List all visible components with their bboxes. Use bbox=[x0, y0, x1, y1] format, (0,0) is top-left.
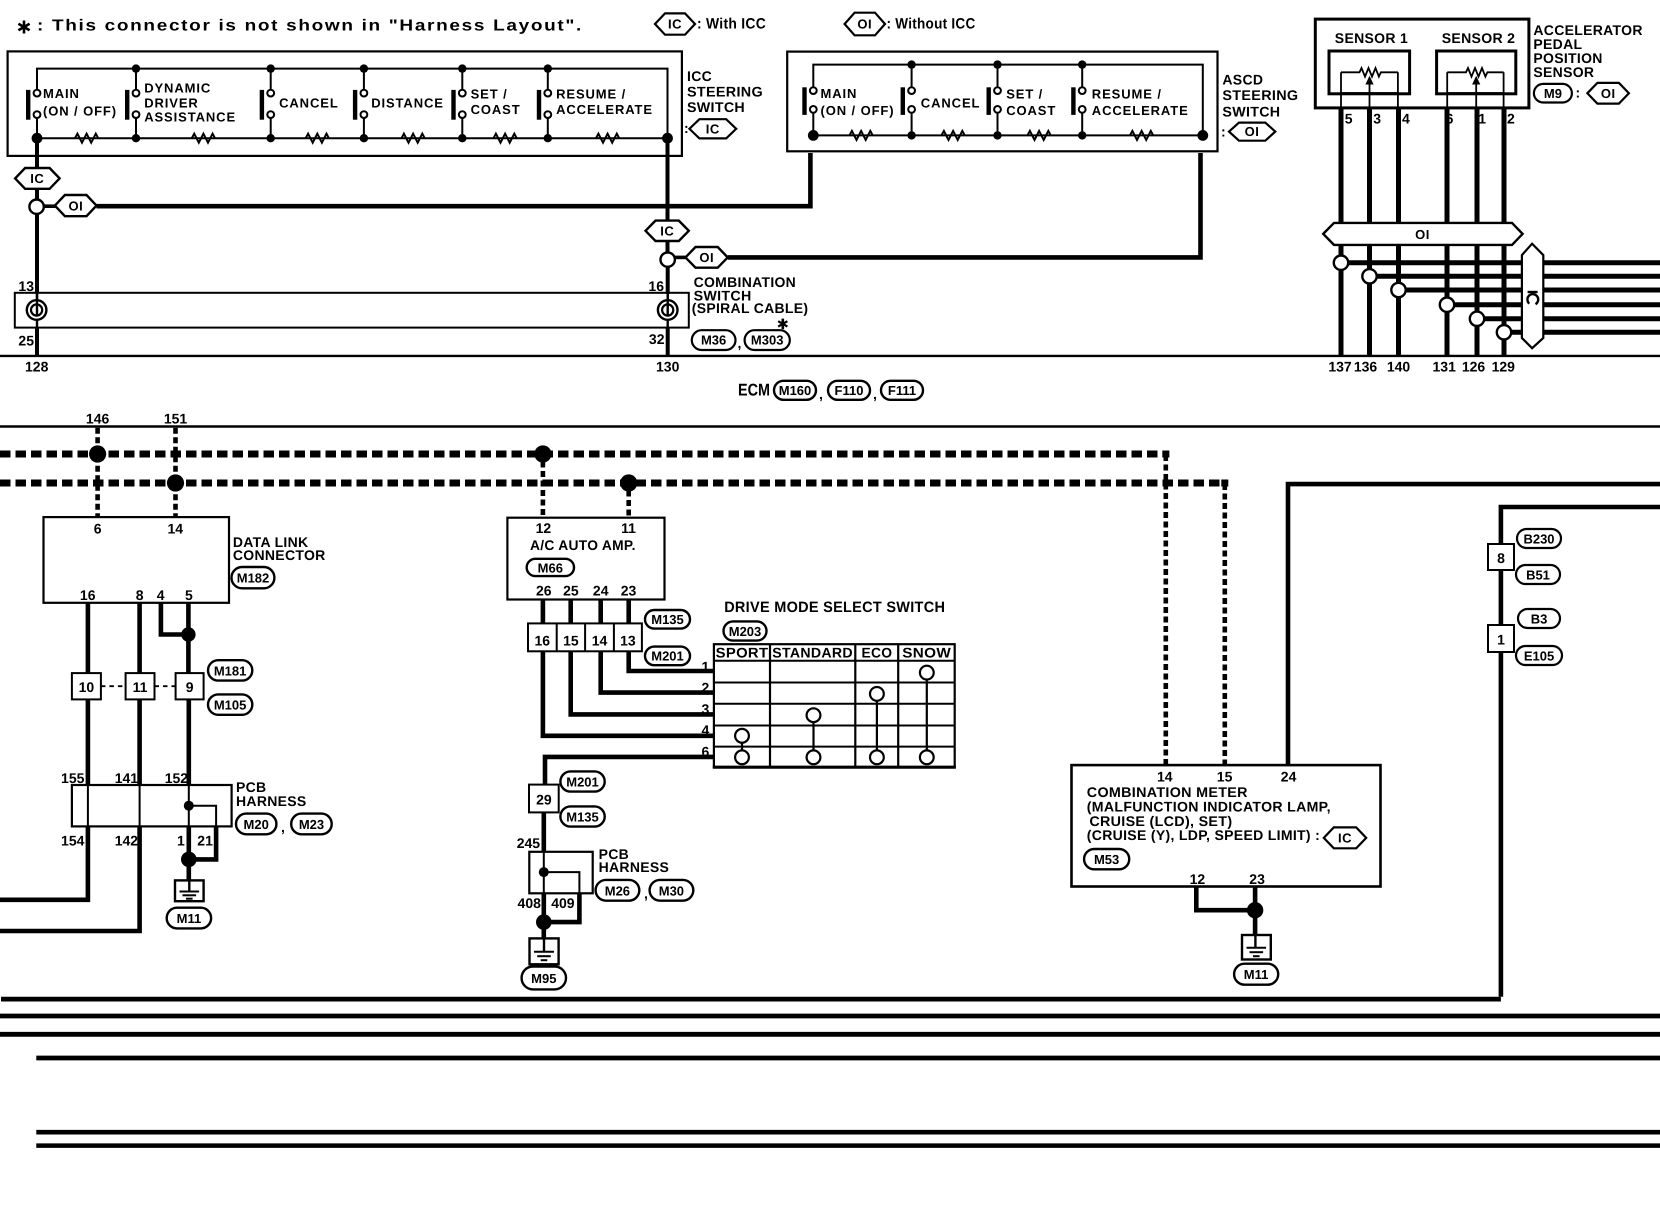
svg-text:12: 12 bbox=[1190, 871, 1206, 887]
svg-text:M135: M135 bbox=[566, 810, 599, 825]
wire node to OI tag right bbox=[675, 256, 688, 260]
svg-text:21: 21 bbox=[197, 833, 213, 849]
wire table row6 to box 29 bbox=[545, 757, 714, 785]
svg-text:ECO: ECO bbox=[861, 644, 892, 660]
svg-text:IC: IC bbox=[660, 224, 674, 239]
connector M135 oval bbox=[645, 610, 690, 629]
svg-text:M203: M203 bbox=[729, 624, 762, 639]
ICC resistor R2 bbox=[192, 134, 215, 143]
wire DLC 5 down bbox=[186, 603, 191, 673]
svg-text:M20: M20 bbox=[244, 817, 269, 832]
sensor wire 2 bbox=[1502, 108, 1507, 356]
svg-text:ASSISTANCE: ASSISTANCE bbox=[144, 110, 236, 125]
inline connector box 9 bbox=[176, 673, 204, 699]
dashed vertical meter pin 14 bbox=[1164, 455, 1169, 765]
node circle right bbox=[661, 252, 675, 266]
wire OI horizontal to ASCD right end bbox=[728, 153, 1201, 257]
svg-text:6: 6 bbox=[702, 743, 710, 759]
sensor 2 inner box bbox=[1437, 51, 1516, 94]
ASCD resistor R3 bbox=[1028, 131, 1051, 140]
svg-text:151: 151 bbox=[164, 411, 188, 427]
svg-text:F111: F111 bbox=[888, 383, 916, 398]
svg-text:2: 2 bbox=[702, 679, 710, 695]
IC banner vertical bbox=[1522, 244, 1543, 349]
drive mode table frame bbox=[714, 644, 955, 767]
wire ICC right bus down to IC tag bbox=[666, 143, 670, 221]
svg-text:25: 25 bbox=[18, 333, 34, 349]
ICC switch SET/COAST bbox=[451, 64, 520, 142]
CAN bus dashed line 2 bbox=[0, 480, 1228, 487]
svg-text:16: 16 bbox=[535, 632, 551, 648]
svg-text:OI: OI bbox=[1601, 86, 1616, 101]
svg-text:CONNECTOR: CONNECTOR bbox=[233, 547, 326, 563]
table column line STANDARD/ECO bbox=[854, 644, 856, 767]
note asterisk bbox=[18, 21, 29, 34]
svg-text:: Without ICC: : Without ICC bbox=[887, 16, 976, 33]
svg-text:137: 137 bbox=[1328, 358, 1352, 374]
ASCD switch CANCEL bbox=[901, 60, 981, 139]
SPORT switch contacts bbox=[741, 736, 743, 758]
junction dot bus1 x146 bbox=[89, 445, 106, 462]
ground symbol M11 left bbox=[175, 880, 204, 901]
wire A/C 23 down bbox=[626, 600, 631, 624]
wire pin 32 to ECM bbox=[666, 328, 670, 356]
connector M30 oval bbox=[650, 880, 694, 901]
svg-text:154: 154 bbox=[61, 833, 85, 849]
connector M182 oval bbox=[232, 567, 275, 588]
wire node down to pin 13 bbox=[35, 214, 39, 293]
svg-text:M9: M9 bbox=[1544, 86, 1562, 101]
svg-text:M26: M26 bbox=[605, 883, 630, 898]
svg-text::: : bbox=[684, 120, 689, 136]
ICC resistor R3 bbox=[306, 134, 329, 143]
wire 13 to table row1 bbox=[629, 651, 714, 671]
corner elbow bus2 bbox=[1221, 480, 1228, 487]
svg-text:,: , bbox=[738, 335, 742, 351]
connector M303 oval bbox=[745, 330, 790, 350]
svg-text:24: 24 bbox=[593, 583, 609, 599]
wire meter pin 24 up and right offpage bbox=[1288, 484, 1660, 765]
connector M203 oval bbox=[724, 621, 767, 640]
ICC top bus wire bbox=[37, 69, 668, 139]
svg-text:SENSOR: SENSOR bbox=[1533, 64, 1594, 80]
svg-text:(CRUISE (Y), LDP, SPEED LIMIT): (CRUISE (Y), LDP, SPEED LIMIT) : bbox=[1087, 827, 1320, 843]
svg-text:HARNESS: HARNESS bbox=[236, 793, 307, 809]
svg-text:M160: M160 bbox=[779, 383, 812, 398]
svg-text:OI: OI bbox=[1415, 227, 1430, 242]
sensor 1 inner box bbox=[1329, 51, 1410, 94]
svg-text:26: 26 bbox=[536, 583, 552, 599]
connector F111 oval bbox=[881, 381, 923, 400]
svg-text:SET /: SET / bbox=[471, 87, 508, 102]
svg-text:,: , bbox=[873, 386, 877, 402]
svg-text:B51: B51 bbox=[1526, 567, 1550, 582]
svg-text::: : bbox=[1221, 124, 1226, 140]
IC hexagon tag right wire bbox=[646, 221, 689, 241]
svg-text:15: 15 bbox=[1217, 769, 1233, 785]
inline connector box 10 bbox=[72, 673, 101, 699]
branch line wire5 right bbox=[1348, 260, 1660, 265]
svg-text:14: 14 bbox=[592, 632, 608, 648]
svg-text:10: 10 bbox=[79, 679, 95, 695]
svg-text:OI: OI bbox=[699, 250, 714, 265]
svg-text:,: , bbox=[644, 886, 648, 902]
svg-text:F110: F110 bbox=[835, 383, 864, 398]
svg-text:M95: M95 bbox=[531, 971, 556, 986]
connector M95 oval bbox=[522, 967, 566, 990]
svg-text:STANDARD: STANDARD bbox=[772, 644, 853, 660]
branch line wire1 right bbox=[1484, 316, 1660, 321]
svg-text:COAST: COAST bbox=[471, 102, 521, 117]
junction dot bus2 x151 bbox=[167, 474, 184, 491]
wire meter 12 down right bbox=[1196, 887, 1255, 911]
wire box9 down to PCB bbox=[187, 699, 192, 785]
ICC switch CANCEL bbox=[260, 64, 339, 142]
branch line wire6 right bbox=[1454, 302, 1660, 307]
ground symbol M95 bbox=[530, 938, 559, 964]
svg-text:(ON / OFF): (ON / OFF) bbox=[43, 103, 117, 118]
svg-text:11: 11 bbox=[133, 679, 148, 695]
bottom line 5 bbox=[36, 1130, 1660, 1135]
svg-text:5: 5 bbox=[1345, 111, 1353, 127]
svg-text:29: 29 bbox=[536, 792, 552, 808]
svg-text:M53: M53 bbox=[1094, 852, 1119, 867]
svg-text:23: 23 bbox=[1249, 871, 1265, 887]
svg-text:M201: M201 bbox=[566, 775, 599, 790]
svg-text:4: 4 bbox=[157, 587, 165, 603]
svg-text:M30: M30 bbox=[659, 883, 684, 898]
legend OI hexagon bbox=[845, 13, 885, 36]
svg-text:15: 15 bbox=[563, 632, 579, 648]
branch line wire4 right bbox=[1406, 288, 1660, 293]
svg-text:,: , bbox=[281, 819, 285, 835]
svg-text:155: 155 bbox=[61, 770, 85, 786]
junction dot pin1/21 bbox=[181, 852, 197, 868]
junction dot bus1 A/C12 bbox=[534, 445, 551, 462]
svg-text:8: 8 bbox=[1497, 550, 1505, 566]
svg-text:DRIVER: DRIVER bbox=[144, 96, 199, 111]
svg-text:B230: B230 bbox=[1523, 531, 1554, 546]
svg-text:ACCELERATE: ACCELERATE bbox=[556, 102, 653, 117]
table header row line bbox=[714, 660, 955, 662]
svg-text:: With ICC: : With ICC bbox=[697, 16, 766, 33]
corner elbow bus1 bbox=[1162, 451, 1169, 458]
svg-text:DYNAMIC: DYNAMIC bbox=[144, 81, 211, 96]
OI hexagon tag on horizontal wire bbox=[55, 195, 97, 216]
svg-text:SENSOR 1: SENSOR 1 bbox=[1335, 30, 1408, 46]
svg-text:A/C AUTO AMP.: A/C AUTO AMP. bbox=[530, 537, 636, 553]
connector M26 oval bbox=[596, 880, 640, 901]
IC hexagon tag left wire bbox=[15, 168, 60, 189]
wire 15 to table row3 bbox=[571, 651, 714, 714]
svg-text:M135: M135 bbox=[651, 612, 684, 627]
svg-text:SENSOR 2: SENSOR 2 bbox=[1442, 30, 1516, 46]
svg-text:M66: M66 bbox=[538, 561, 563, 576]
svg-text:130: 130 bbox=[656, 359, 680, 375]
svg-text:ICC: ICC bbox=[687, 68, 712, 84]
svg-text:3: 3 bbox=[702, 701, 710, 717]
ICC resistor R6 bbox=[596, 134, 619, 143]
svg-text:9: 9 bbox=[186, 679, 194, 695]
connector F110 oval bbox=[828, 381, 870, 400]
junction dot 408/409 bbox=[536, 914, 552, 930]
node circle wire2 bbox=[1497, 325, 1511, 339]
svg-text:M11: M11 bbox=[177, 911, 202, 926]
node circle wire6 bbox=[1440, 298, 1454, 312]
svg-text:ASCD: ASCD bbox=[1222, 71, 1263, 87]
OI hexagon tag at ASCD box bbox=[1229, 123, 1275, 141]
STANDARD switch contacts bbox=[812, 715, 814, 757]
table bottom thick line bbox=[713, 766, 956, 769]
svg-text:IC: IC bbox=[30, 171, 44, 186]
wire box10 down to PCB bbox=[86, 699, 91, 785]
IC hexagon tag at ICC box bbox=[689, 119, 736, 138]
svg-text:M181: M181 bbox=[214, 663, 247, 678]
svg-text:OI: OI bbox=[1245, 124, 1260, 139]
ICC resistor R4 bbox=[402, 134, 425, 143]
inline connector box 1 bbox=[1488, 625, 1514, 652]
spiral cable terminal left (double circle) bbox=[27, 300, 47, 320]
svg-text:,: , bbox=[819, 386, 823, 402]
junction dot inside PCB bbox=[184, 801, 194, 811]
junction dot meter ground bbox=[1247, 902, 1263, 918]
connector M201 oval lower bbox=[560, 771, 604, 791]
svg-text:32: 32 bbox=[649, 331, 665, 347]
wire DLC 4 down and right bbox=[161, 603, 189, 635]
accelerator pedal position sensor box bbox=[1315, 19, 1529, 108]
branch line wire3 right bbox=[1377, 274, 1660, 279]
junction dot pins 4/5 bbox=[181, 627, 195, 641]
svg-text:M23: M23 bbox=[299, 817, 324, 832]
svg-text:152: 152 bbox=[165, 770, 189, 786]
inline connector box 11 bbox=[126, 673, 155, 699]
svg-text:MAIN: MAIN bbox=[821, 86, 858, 101]
connector B3 oval bbox=[1518, 609, 1560, 628]
svg-text:DISTANCE: DISTANCE bbox=[371, 95, 444, 110]
svg-text:6: 6 bbox=[94, 521, 102, 537]
svg-text:SWITCH: SWITCH bbox=[687, 99, 745, 115]
svg-text:131: 131 bbox=[1433, 358, 1457, 374]
connector M105 oval bbox=[208, 694, 252, 714]
svg-text:SET /: SET / bbox=[1006, 87, 1043, 102]
ASCD top bus wire bbox=[813, 65, 1203, 136]
wire 245-408 through PCB2 bbox=[543, 852, 545, 894]
svg-text:2: 2 bbox=[1507, 111, 1515, 127]
svg-text:12: 12 bbox=[536, 520, 552, 536]
bottom line 2 bbox=[0, 1014, 1660, 1019]
svg-text:4: 4 bbox=[1402, 111, 1410, 127]
wire A/C 25 down bbox=[568, 600, 573, 624]
ICC resistor R1 bbox=[75, 134, 98, 143]
OI banner across sensor wires bbox=[1323, 223, 1522, 245]
ASCD switch RESUME/ACCELERATE bbox=[1071, 60, 1188, 139]
sensor wire 5 bbox=[1339, 108, 1344, 356]
inline connector box 29 bbox=[529, 785, 559, 813]
wire from right edge down through 8 and 1 bbox=[1501, 507, 1660, 997]
CAN bus dashed line 1 bbox=[0, 451, 1169, 458]
connector B230 oval bbox=[1517, 529, 1561, 548]
wire ICC MAIN down to IC tag bbox=[35, 143, 39, 168]
wire IC tag to node circle bbox=[35, 189, 39, 200]
PCB harness box 2 bbox=[529, 852, 592, 894]
svg-text:129: 129 bbox=[1492, 358, 1516, 374]
svg-text:M36: M36 bbox=[701, 333, 726, 348]
dashed link 11-9 bbox=[155, 685, 176, 687]
ICC switch DISTANCE bbox=[353, 64, 444, 142]
sensor 2 potentiometer bbox=[1447, 68, 1503, 108]
ICC resistor R5 bbox=[494, 134, 517, 143]
ASCD resistor R4 bbox=[1130, 131, 1153, 140]
svg-text:14: 14 bbox=[168, 521, 184, 537]
junction dot inside PCB2 bbox=[539, 867, 549, 877]
ASCD switch MAIN (ON/OFF) bbox=[802, 86, 894, 136]
A/C auto amp box bbox=[507, 518, 664, 600]
table column line SPORT/STANDARD bbox=[769, 644, 771, 767]
svg-text:M201: M201 bbox=[651, 649, 684, 664]
junction dot ICC right bus bbox=[662, 133, 673, 144]
connector M181 oval bbox=[208, 660, 252, 680]
wire DLC 8 down bbox=[137, 603, 142, 673]
ground symbol M11 right bbox=[1242, 935, 1271, 960]
svg-text:B3: B3 bbox=[1531, 611, 1548, 626]
wire meter 23 down bbox=[1253, 887, 1258, 936]
svg-text:RESUME /: RESUME / bbox=[556, 87, 626, 102]
table row line 3 bbox=[714, 725, 955, 727]
dashed vertical A/C amp pin 12 bbox=[541, 452, 546, 518]
svg-text:141: 141 bbox=[115, 770, 139, 786]
svg-text:4: 4 bbox=[702, 722, 710, 738]
svg-text:5: 5 bbox=[185, 587, 193, 603]
connector M11 oval left bbox=[167, 908, 211, 929]
dashed vertical meter pin 15 bbox=[1223, 484, 1228, 765]
junction dot ICC left bus bbox=[32, 133, 43, 144]
svg-text:14: 14 bbox=[1157, 769, 1173, 785]
wire 155-154 through PCB bbox=[87, 785, 89, 826]
svg-text:(SPIRAL CABLE): (SPIRAL CABLE) bbox=[692, 300, 809, 316]
svg-text:RESUME /: RESUME / bbox=[1092, 87, 1162, 102]
svg-text:3: 3 bbox=[1373, 111, 1381, 127]
svg-text:M11: M11 bbox=[1244, 967, 1269, 982]
wire box11 down to PCB bbox=[137, 699, 142, 785]
svg-text:STEERING: STEERING bbox=[687, 84, 763, 100]
connector M11 oval right bbox=[1234, 964, 1278, 985]
connector M23 oval bbox=[291, 814, 332, 835]
wire A/C 24 down bbox=[598, 600, 603, 624]
wire pin408 down bbox=[541, 893, 546, 938]
svg-text:CANCEL: CANCEL bbox=[921, 95, 981, 110]
ICC switch DYNAMIC DRIVER ASSISTANCE bbox=[125, 64, 236, 142]
node circle wire5 bbox=[1334, 256, 1348, 270]
legend IC hexagon bbox=[655, 13, 695, 34]
svg-text:136: 136 bbox=[1354, 358, 1378, 374]
svg-text:(ON / OFF): (ON / OFF) bbox=[821, 103, 895, 118]
svg-text:126: 126 bbox=[1462, 358, 1486, 374]
asterisk above M303 bbox=[778, 319, 787, 330]
OI hexagon tag second bbox=[686, 247, 728, 268]
connector M66 oval bbox=[527, 559, 574, 576]
svg-text:408: 408 bbox=[518, 895, 542, 911]
wire 14 to table row2 bbox=[601, 651, 714, 692]
svg-text::: : bbox=[1576, 85, 1581, 101]
svg-text:1: 1 bbox=[1497, 632, 1505, 648]
dashed link 10-11 bbox=[101, 685, 126, 687]
svg-text:245: 245 bbox=[517, 835, 541, 851]
branch to pin 21 bbox=[189, 806, 216, 827]
connector M36 oval bbox=[692, 330, 736, 350]
ASCD switch SET/COAST bbox=[987, 60, 1057, 139]
bottom line 1 bbox=[1, 997, 1501, 1002]
wire IC tag to node circle right bbox=[666, 241, 670, 253]
connector B51 oval bbox=[1516, 565, 1560, 584]
spiral cable box bbox=[15, 293, 689, 328]
ASCD steering switch outer box bbox=[787, 52, 1217, 152]
svg-text:OI: OI bbox=[857, 17, 872, 32]
wire OI horizontal to ASCD MAIN bbox=[97, 153, 811, 206]
svg-text:11: 11 bbox=[621, 520, 636, 536]
wire through spiral cable right bbox=[667, 294, 669, 328]
svg-text:STEERING: STEERING bbox=[1222, 87, 1298, 103]
connector M20 oval bbox=[236, 814, 276, 835]
svg-text:E105: E105 bbox=[1524, 648, 1554, 663]
wire box29 down to PCB2 bbox=[541, 812, 546, 851]
node circle wire1 bbox=[1470, 312, 1484, 326]
wire node to OI tag bbox=[44, 204, 57, 208]
svg-text:ECM: ECM bbox=[738, 381, 770, 400]
ASCD resistor R1 bbox=[850, 131, 873, 140]
svg-text:23: 23 bbox=[621, 583, 637, 599]
svg-text:DRIVE MODE SELECT SWITCH: DRIVE MODE SELECT SWITCH bbox=[724, 599, 945, 616]
sensor wire 6 bbox=[1445, 108, 1450, 356]
sensor wire 3 bbox=[1367, 108, 1372, 356]
svg-text:24: 24 bbox=[1281, 769, 1297, 785]
svg-text:: This connector is not shown: : This connector is not shown in "Harnes… bbox=[37, 18, 583, 35]
wire 141-142 through PCB bbox=[139, 785, 141, 826]
wire 16 to table row4 bbox=[543, 651, 714, 736]
ICC switch RESUME/ACCELERATE bbox=[537, 64, 653, 142]
svg-text:128: 128 bbox=[25, 359, 49, 375]
dashed vertical pin 146 bbox=[95, 428, 100, 517]
svg-text:16: 16 bbox=[648, 278, 664, 294]
svg-text:COAST: COAST bbox=[1006, 103, 1056, 118]
svg-text:ACCELERATE: ACCELERATE bbox=[1092, 103, 1189, 118]
svg-text:1: 1 bbox=[702, 659, 710, 675]
branch to pin 409 bbox=[544, 872, 580, 893]
sensor wire 4 bbox=[1396, 108, 1401, 356]
PCB harness box 1 bbox=[72, 785, 232, 826]
spiral cable terminal right (double circle) bbox=[658, 300, 678, 320]
bottom line 4 bbox=[36, 1056, 1660, 1061]
svg-text:M303: M303 bbox=[751, 333, 784, 348]
svg-text:SPORT: SPORT bbox=[716, 644, 769, 660]
wire node down to pin 16 bbox=[666, 267, 670, 294]
dashed vertical pin 151 bbox=[173, 428, 178, 517]
svg-text:1: 1 bbox=[177, 833, 185, 849]
table row line 4 bbox=[714, 746, 955, 748]
svg-text:HARNESS: HARNESS bbox=[599, 859, 670, 875]
svg-text:25: 25 bbox=[563, 583, 579, 599]
bottom line 3 bbox=[0, 1032, 1660, 1037]
svg-text:SWITCH: SWITCH bbox=[1222, 104, 1280, 120]
junction dot ASCD right bus bbox=[1197, 130, 1208, 141]
svg-text:13: 13 bbox=[620, 632, 636, 648]
wire A/C 26 down bbox=[541, 600, 546, 624]
ASCD bottom bus wire bbox=[813, 134, 1203, 136]
svg-text:SNOW: SNOW bbox=[902, 644, 951, 660]
ICC steering switch outer box bbox=[8, 51, 682, 155]
IC hexagon tag at meter bbox=[1324, 827, 1366, 848]
svg-text:IC: IC bbox=[706, 121, 720, 136]
wire DLC 16 down bbox=[86, 603, 91, 673]
